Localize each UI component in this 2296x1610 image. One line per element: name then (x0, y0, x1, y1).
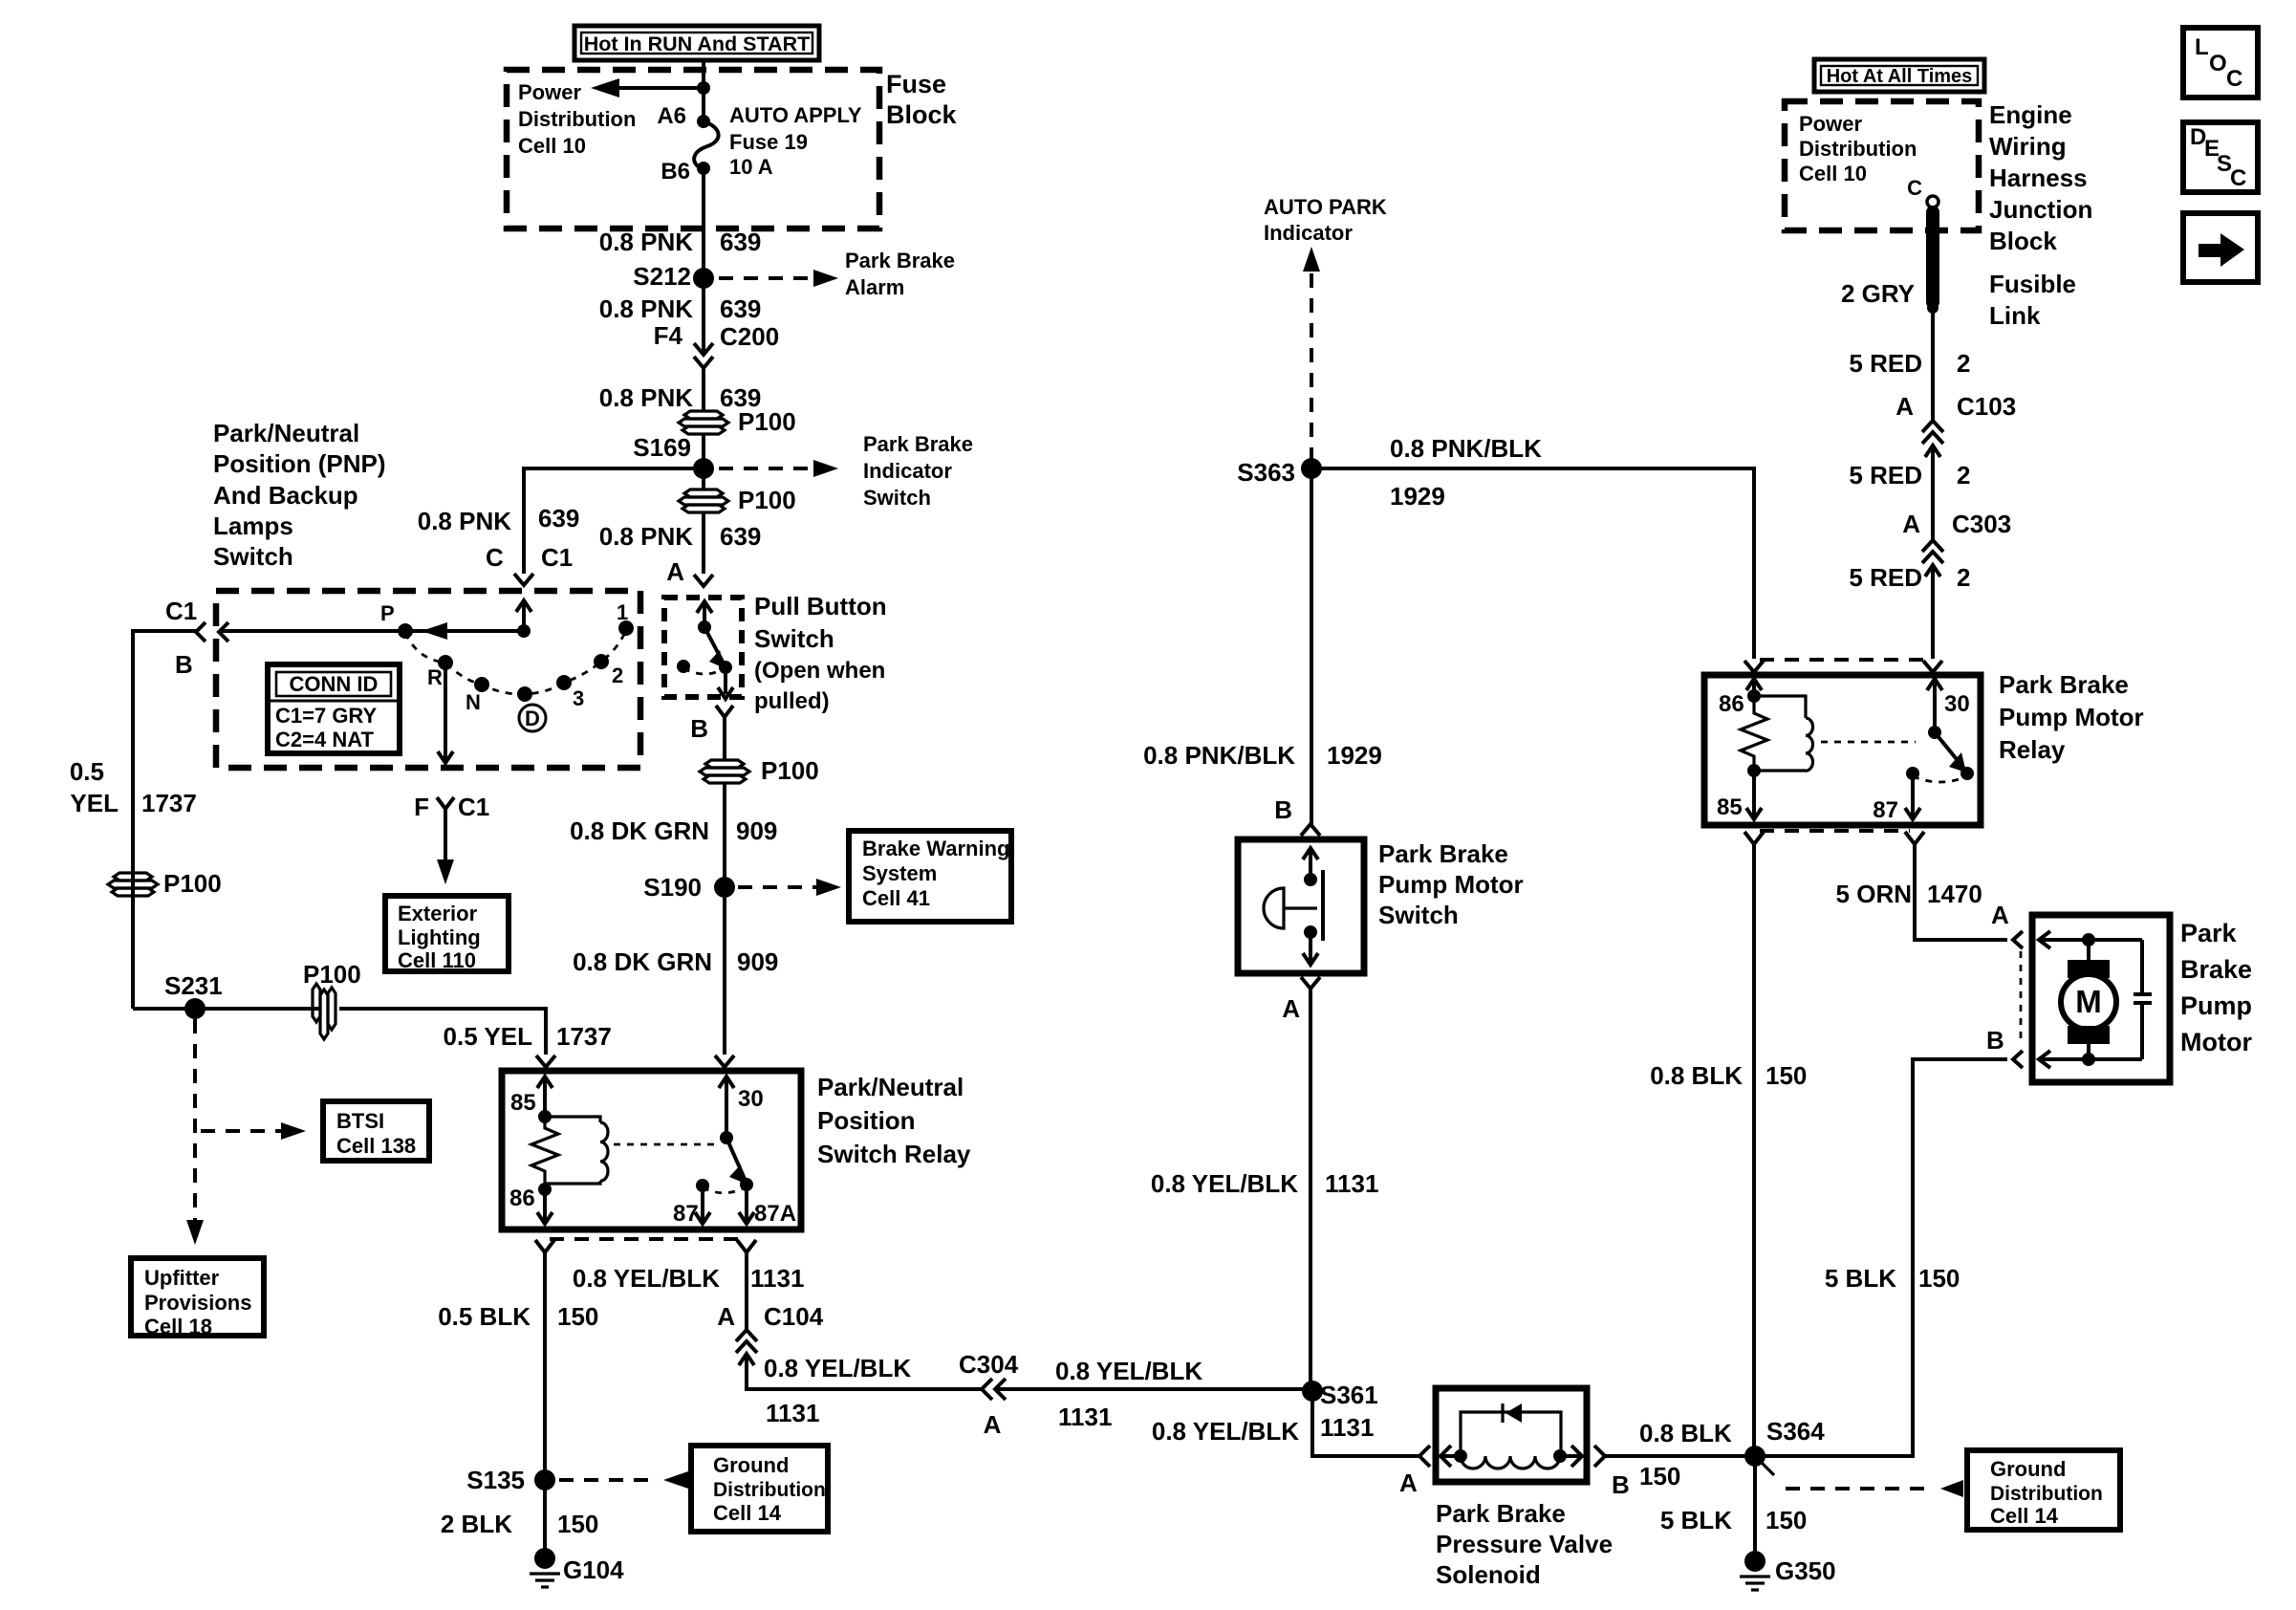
svg-text:Ground: Ground (1990, 1457, 2066, 1481)
wire: feed from Hot box into fuse block (702, 60, 705, 121)
pull button switch: top contact dot (698, 620, 711, 634)
contact R dot (438, 655, 453, 670)
wire 909 from pull button to P100 (723, 717, 726, 759)
dashed ref arrow to Brake Warning System (738, 879, 841, 896)
svg-text:1131: 1131 (1320, 1413, 1374, 1442)
pump relay pivot dot (1928, 726, 1941, 739)
svg-text:0.8 YEL/BLK: 0.8 YEL/BLK (1151, 1169, 1298, 1198)
ref box: Exterior Lighting Cell 110 (385, 896, 509, 972)
svg-text:1929: 1929 (1390, 482, 1445, 511)
relay K node 85 (538, 1110, 552, 1123)
svg-text:S135: S135 (466, 1466, 525, 1494)
pin A6 terminal dot (697, 115, 710, 128)
svg-text:P100: P100 (163, 869, 222, 898)
label 0.8 YEL/BLK 1131 (below relay) (573, 1264, 805, 1293)
svg-text:Switch Relay: Switch Relay (817, 1140, 971, 1168)
motor armature M (2061, 940, 2116, 1059)
label 0.8 PNK 639 (above pull button) (599, 522, 762, 551)
relay K: Park/Neutral Position Switch Relay box (502, 1071, 801, 1229)
relay K pin 87A exit arrow (739, 1185, 796, 1227)
wire: branch from S169 to PNP switch pin C (524, 468, 704, 574)
dashed ref arrow to Park Brake Alarm (719, 249, 955, 299)
pump relay coil (1754, 696, 1813, 771)
svg-text:P: P (380, 601, 395, 625)
label: Park/Neutral Position (PNP) And Backup Lamps Switch (213, 419, 386, 571)
wire 639 from B6 to S212 (702, 168, 705, 278)
svg-text:Solenoid: Solenoid (1436, 1560, 1541, 1589)
pin 87A chevron below relay (737, 1240, 756, 1252)
svg-text:Junction: Junction (1989, 195, 2092, 224)
svg-text:5 BLK: 5 BLK (1825, 1264, 1896, 1293)
relay K contact 87A dot (740, 1178, 753, 1191)
motor exit arrow B (2039, 1051, 2142, 1068)
dashed connector line below PNP relay (550, 1237, 742, 1241)
svg-text:5 ORN: 5 ORN (1836, 880, 1912, 908)
svg-text:O: O (2209, 51, 2227, 76)
svg-text:R: R (427, 665, 443, 689)
relay: Park Brake Pump Motor Relay box (1704, 675, 1981, 825)
svg-text:M: M (2075, 984, 2102, 1019)
fuse F19 AUTO APPLY 10 A (fuse squiggle) (694, 121, 718, 169)
dashed ref arrow to Ground Distribution (left) (559, 1471, 688, 1489)
svg-text:86: 86 (509, 1186, 535, 1211)
svg-text:Park: Park (2180, 919, 2238, 947)
pump switch: contact blade (1321, 870, 1325, 941)
svg-text:Hot In RUN And START: Hot In RUN And START (584, 33, 810, 55)
contact N dot (474, 677, 489, 692)
grommet P100 (first) (679, 407, 796, 436)
svg-text:Distribution: Distribution (518, 107, 636, 131)
motor entry arrow A (2039, 931, 2142, 948)
pump relay node 86 (1747, 689, 1761, 703)
svg-text:0.8 PNK: 0.8 PNK (599, 294, 693, 323)
svg-text:B: B (1612, 1470, 1630, 1499)
svg-text:0.5 BLK: 0.5 BLK (438, 1302, 531, 1331)
pull button switch: input arrow (697, 601, 712, 627)
svg-text:C1: C1 (165, 597, 197, 625)
svg-text:S212: S212 (633, 262, 691, 291)
svg-text:pulled): pulled) (754, 688, 830, 714)
svg-text:C: C (486, 543, 504, 572)
svg-text:Motor: Motor (2180, 1028, 2252, 1056)
svg-text:2: 2 (1957, 349, 1970, 378)
label 5 ORN 1470 (1836, 880, 1982, 908)
svg-text:1131: 1131 (1325, 1169, 1378, 1198)
pump switch: bottom contact dot (1304, 925, 1317, 939)
pump switch: top contact dot (1304, 873, 1317, 886)
pin 85 chevron at PNP relay (536, 1055, 555, 1067)
splice S212 (633, 262, 714, 291)
pin A chevron (694, 575, 713, 586)
wire 2 from C303 to pump relay pin 30 (1931, 565, 1935, 659)
svg-text:G350: G350 (1775, 1556, 1836, 1585)
svg-text:Exterior: Exterior (398, 902, 478, 925)
svg-text:C2=4 NAT: C2=4 NAT (275, 728, 374, 751)
pump relay dashed actuator link (1821, 741, 1916, 744)
PNP switch dashed box (216, 591, 640, 768)
pump relay dashed contact arc (1913, 776, 1967, 782)
svg-text:Cell 14: Cell 14 (1990, 1504, 2059, 1528)
switch: Park Brake Pump Motor Switch box (1238, 839, 1364, 973)
ref box: Ground Distribution Cell 14 (right) (1967, 1450, 2120, 1530)
svg-text:Pull Button: Pull Button (754, 592, 887, 620)
svg-text:AUTO APPLY: AUTO APPLY (729, 103, 862, 127)
svg-text:150: 150 (557, 1510, 598, 1538)
svg-text:Engine: Engine (1989, 100, 2072, 129)
pin B chevron (716, 706, 733, 717)
dashed ref line from S231 down (193, 1019, 197, 1229)
svg-text:1929: 1929 (1327, 741, 1382, 770)
label 0.8 PNK 639 (above S212) (599, 228, 762, 256)
label 0.8 YEL/BLK 1131 (middle wire) (1151, 1169, 1379, 1198)
label 0.5 YEL 1737 (left wire) (70, 757, 197, 817)
wire 1737 from P100 to PNP relay pin 85 (339, 1009, 546, 1055)
wire 1737: pin B down the left side (133, 631, 196, 1009)
svg-text:C200: C200 (720, 322, 779, 351)
connector C304 labels (959, 1350, 1019, 1439)
svg-text:F: F (414, 793, 429, 821)
label: Fuse Block (886, 70, 958, 129)
label 5 BLK 150 (ground wire) (1660, 1506, 1808, 1534)
svg-text:Fuse: Fuse (886, 70, 946, 98)
pull button switch: moving contact dot (719, 661, 732, 674)
svg-text:Cell 10: Cell 10 (518, 134, 586, 158)
svg-text:Link: Link (1989, 301, 2041, 330)
svg-text:150: 150 (1918, 1264, 1960, 1293)
svg-text:2 GRY: 2 GRY (1841, 279, 1915, 308)
wire 2 from C103 to C303 (1931, 446, 1935, 540)
svg-text:0.8 DK GRN: 0.8 DK GRN (570, 816, 709, 845)
ref box: Ground Distribution Cell 14 (left) (691, 1446, 828, 1532)
svg-text:L: L (2195, 34, 2209, 60)
label: Park Brake Pump Motor (2180, 919, 2252, 1056)
svg-text:2 BLK: 2 BLK (441, 1510, 512, 1538)
svg-text:85: 85 (1717, 794, 1743, 820)
splice S361 (1302, 1381, 1378, 1442)
svg-text:Pump: Pump (2180, 991, 2252, 1020)
label 5 RED 2 (below C303) (1849, 563, 1970, 592)
relay K resistor (531, 1117, 558, 1184)
label 0.8 DK GRN 909 (above S190) (570, 816, 777, 845)
svg-text:0.5 YEL: 0.5 YEL (444, 1022, 533, 1051)
svg-text:C304: C304 (959, 1350, 1019, 1379)
svg-text:S231: S231 (164, 971, 223, 1000)
svg-text:S363: S363 (1237, 458, 1295, 487)
pin 87 chevron below pump relay (1905, 832, 1924, 844)
svg-text:Block: Block (886, 100, 958, 129)
node: fusible link lower end (1927, 302, 1939, 314)
connector C1 pin C labels (486, 543, 573, 572)
legend box DESC (2183, 122, 2258, 192)
svg-text:909: 909 (737, 947, 778, 976)
pin 85 chevron below pump relay (1744, 832, 1764, 844)
wire 150 from motor B to S364 (1755, 1059, 2007, 1456)
pump relay pin 85 exit arrow (1717, 771, 1762, 820)
svg-text:639: 639 (720, 522, 761, 551)
splice S135 (466, 1466, 555, 1494)
pump relay pin 30 entry arrow (1927, 679, 1970, 732)
ground G104 (530, 1548, 624, 1587)
solenoid: exit node and edge arrow (1553, 1446, 1582, 1467)
svg-text:1131: 1131 (766, 1399, 819, 1427)
svg-text:Cell 14: Cell 14 (713, 1501, 782, 1525)
contact D dot (517, 686, 532, 702)
svg-text:2: 2 (612, 664, 623, 687)
svg-text:Wiring: Wiring (1989, 132, 2067, 161)
ref box: Upfitter Provisions Cell 18 (131, 1258, 264, 1338)
svg-text:C1: C1 (458, 793, 489, 821)
relay K coil (545, 1117, 608, 1184)
svg-text:Fusible: Fusible (1989, 270, 2076, 298)
dashed ref arrow to Ground Distribution (right) (1762, 1463, 1963, 1497)
connector C1 pin C chevron (514, 574, 533, 585)
svg-text:Switch: Switch (1378, 901, 1459, 929)
wire 150 from S135 to G104 (543, 1480, 547, 1553)
svg-text:And Backup: And Backup (213, 481, 358, 510)
svg-text:P100: P100 (738, 407, 796, 436)
svg-text:909: 909 (736, 816, 777, 845)
connector C200 symbol (694, 343, 713, 368)
svg-text:Park Brake: Park Brake (1436, 1499, 1566, 1528)
svg-text:Power: Power (518, 80, 581, 104)
label 0.8 YEL/BLK 1131 (left of C304) (764, 1354, 911, 1427)
pin 86 chevron above pump relay (1744, 661, 1764, 672)
dashed ref arrow to Upfitter Provisions (186, 1220, 204, 1245)
pin B6 terminal dot (697, 162, 710, 175)
dashed connector line below pump relay (1760, 829, 1910, 833)
label: AUTO PARK Indicator (1264, 195, 1387, 245)
label 5 RED 2 (above C103) (1849, 349, 1970, 378)
wire 909 from S190 to PNP relay pin 30 (723, 887, 726, 1055)
pin 30 chevron above pump relay (1923, 661, 1942, 672)
svg-text:Upfitter: Upfitter (144, 1266, 220, 1290)
svg-text:C: C (1907, 176, 1922, 200)
connector C103 labels (1895, 392, 2016, 421)
svg-text:639: 639 (720, 294, 761, 323)
svg-text:C1: C1 (541, 543, 573, 572)
power distribution dashed box (right) (1785, 101, 1979, 230)
svg-text:N: N (466, 690, 481, 714)
svg-text:S361: S361 (1320, 1381, 1378, 1409)
svg-text:Hot At All Times: Hot At All Times (1827, 66, 1973, 87)
label 0.8 PNK 639 (branch wire) (418, 504, 580, 535)
svg-text:0.8 PNK/BLK: 0.8 PNK/BLK (1143, 741, 1295, 770)
svg-text:CONN ID: CONN ID (290, 672, 379, 696)
solenoid: entry edge arrow and node (1440, 1446, 1467, 1467)
svg-text:Switch: Switch (213, 542, 293, 571)
connector chevron at solenoid pin A (1419, 1446, 1430, 1467)
dashed connector line above pump relay (1760, 658, 1928, 662)
svg-text:Pump Motor: Pump Motor (1999, 703, 2144, 731)
label 0.8 PNK/BLK 1929 (horizontal wire) (1390, 434, 1542, 511)
svg-text:C104: C104 (764, 1302, 824, 1331)
connector C303 labels (1902, 510, 2011, 538)
svg-text:10 A: 10 A (729, 155, 773, 179)
svg-text:Cell 138: Cell 138 (336, 1134, 416, 1158)
wire: pin F to Exterior Lighting with arrow (437, 809, 454, 884)
ref box: Brake Warning System Cell 41 (849, 831, 1011, 922)
pull button switch: dashed travel arc (683, 668, 726, 674)
svg-text:Switch: Switch (863, 486, 931, 510)
header box: Hot In RUN And START (574, 26, 819, 60)
svg-text:B: B (175, 650, 193, 679)
label: Park/Neutral Position Switch Relay (817, 1073, 971, 1168)
svg-text:Position (PNP): Position (PNP) (213, 449, 386, 478)
svg-text:1737: 1737 (141, 789, 197, 817)
svg-text:Park Brake: Park Brake (1999, 670, 2129, 699)
arrow on P contact line (422, 622, 447, 640)
motor node B (2082, 1053, 2095, 1066)
svg-text:0.8 YEL/BLK: 0.8 YEL/BLK (573, 1264, 720, 1293)
pull button switch: fixed contact dot (677, 660, 690, 673)
svg-text:F4: F4 (654, 321, 683, 350)
svg-text:Power: Power (1799, 112, 1862, 136)
wire 150 from relay 86 to S135 (543, 1252, 547, 1480)
connector C303 symbol (1922, 540, 1943, 577)
svg-text:YEL: YEL (70, 789, 119, 817)
svg-text:Cell 110: Cell 110 (398, 948, 476, 972)
svg-text:G104: G104 (563, 1556, 624, 1584)
motor: Park Brake Pump Motor box (2032, 915, 2170, 1082)
label: Power Distribution Cell 10 (right) (1799, 112, 1917, 185)
svg-text:639: 639 (538, 504, 579, 533)
svg-text:Block: Block (1989, 227, 2057, 255)
relay K pin 30 entry arrow (719, 1077, 764, 1138)
wire 150 from S364 to G350 (1753, 1456, 1757, 1556)
grommet P100 (third) (700, 756, 819, 785)
pump switch: top terminal arrow (1303, 848, 1318, 880)
svg-text:Harness: Harness (1989, 163, 2088, 192)
contact P dot (398, 623, 413, 639)
svg-text:0.8 PNK/BLK: 0.8 PNK/BLK (1390, 434, 1542, 463)
svg-text:A: A (666, 557, 684, 586)
svg-text:Brake Warning: Brake Warning (862, 837, 1009, 860)
svg-text:Cell 18: Cell 18 (144, 1315, 212, 1338)
connector chevron at solenoid pin B (1594, 1446, 1605, 1467)
splice S169 (633, 433, 714, 479)
label 0.8 PNK 639 (above P100) (599, 383, 762, 412)
svg-text:P100: P100 (303, 960, 361, 989)
svg-text:C1=7 GRY: C1=7 GRY (275, 704, 378, 728)
pump relay node 85 (1747, 764, 1761, 777)
svg-text:0.8 YEL/BLK: 0.8 YEL/BLK (764, 1354, 911, 1382)
svg-text:Indicator: Indicator (863, 459, 952, 483)
wire 639 from C200 to P100 (702, 368, 705, 411)
relay K pin 86 exit arrow (509, 1186, 552, 1224)
svg-text:Provisions: Provisions (144, 1291, 251, 1315)
svg-text:AUTO PARK: AUTO PARK (1264, 195, 1387, 219)
fusible link element (1926, 212, 1939, 302)
label 0.8 PNK 639 (above C200) (599, 294, 762, 323)
svg-text:1131: 1131 (1058, 1403, 1112, 1431)
svg-text:2: 2 (1957, 563, 1970, 592)
wire 639 from P100 to S169 (702, 434, 705, 490)
svg-text:5 BLK: 5 BLK (1660, 1506, 1732, 1534)
svg-text:P100: P100 (761, 756, 819, 785)
svg-text:Park Brake: Park Brake (845, 249, 955, 272)
pump relay pin 87 exit arrow (1873, 773, 1920, 823)
grommet P100 (horizontal wire) (303, 960, 361, 1039)
label: Park Brake Pump Motor Relay (1999, 670, 2144, 764)
svg-text:Pump Motor: Pump Motor (1378, 870, 1524, 899)
label: AUTO APPLY Fuse 19 10 A (729, 103, 862, 179)
svg-text:Cell 41: Cell 41 (862, 886, 930, 910)
relay K contact 87 dot (696, 1179, 709, 1192)
svg-text:System: System (862, 861, 937, 885)
svg-text:0.8 YEL/BLK: 0.8 YEL/BLK (1055, 1357, 1202, 1385)
dashed selector arc (405, 630, 626, 694)
wire 639 from P100 to pull button switch (702, 512, 705, 574)
pin C connector ring (1927, 196, 1939, 207)
label 2 BLK 150 (441, 1510, 599, 1538)
connector C103 symbol (1922, 421, 1943, 457)
PNP feed entry arrow (516, 600, 531, 631)
svg-text:A: A (1895, 392, 1914, 421)
wire: P contact line to connector C1 pin B (219, 629, 524, 633)
ground G350 (1740, 1551, 1836, 1590)
pump relay pin 86 entry arrow (1719, 679, 1762, 717)
svg-text:B: B (1986, 1026, 2004, 1055)
wire 2 from fusible link to C103 (1931, 308, 1935, 421)
svg-text:(Open when: (Open when (754, 658, 885, 684)
svg-text:0.8 PNK: 0.8 PNK (599, 383, 693, 412)
svg-text:A6: A6 (657, 103, 686, 129)
svg-text:3: 3 (573, 686, 584, 710)
svg-text:150: 150 (1765, 1506, 1807, 1534)
pin A chevron (pump motor) (2013, 931, 2023, 948)
label 0.5 BLK 150 (438, 1302, 598, 1331)
svg-text:Switch: Switch (754, 624, 834, 653)
splice S231 (164, 971, 223, 1019)
connector C1 pin B chevron (196, 622, 206, 642)
svg-text:A: A (717, 1302, 735, 1331)
svg-text:1131: 1131 (750, 1264, 804, 1293)
connector C104 labels (717, 1302, 823, 1331)
connector C104 symbol (736, 1330, 757, 1365)
node: fuse block feed junction (697, 81, 710, 95)
dashed ref arrow to BTSI (201, 1122, 306, 1140)
svg-text:B: B (1274, 795, 1292, 824)
svg-text:0.8 DK GRN: 0.8 DK GRN (573, 947, 712, 976)
connector C304 symbol (982, 1379, 1006, 1400)
relay K pin 87 exit arrow (673, 1186, 710, 1227)
wire 639 from S212 to C200 (702, 278, 705, 356)
svg-text:Distribution: Distribution (713, 1479, 826, 1501)
svg-text:S364: S364 (1766, 1417, 1825, 1446)
wire 1929 from S363 to pump switch (1310, 468, 1313, 824)
dashed connector boundary at motor (2020, 951, 2023, 1044)
fuse block dashed box (507, 70, 879, 228)
svg-text:C: C (2226, 66, 2242, 92)
svg-text:S169: S169 (633, 433, 691, 462)
svg-text:0.8 PNK: 0.8 PNK (599, 522, 693, 551)
svg-text:Ground: Ground (713, 1453, 789, 1477)
label: Park Brake Pump Motor Switch (1378, 839, 1524, 929)
svg-text:0.8 BLK: 0.8 BLK (1650, 1061, 1743, 1090)
pump relay resistor (1741, 696, 1767, 771)
splice S363 (1237, 458, 1322, 487)
svg-text:0.8 YEL/BLK: 0.8 YEL/BLK (1152, 1417, 1299, 1446)
pull button switch: blade with arrow (704, 627, 725, 668)
relay K pivot dot (720, 1131, 733, 1144)
svg-text:Cell 10: Cell 10 (1799, 162, 1867, 185)
svg-text:2: 2 (1957, 461, 1970, 490)
label 0.8 DK GRN 909 (below S190) (573, 947, 778, 976)
splice S364 (1744, 1417, 1825, 1467)
pump relay contact 87 dot (1906, 767, 1919, 780)
relay K dashed contact arc (703, 1186, 747, 1193)
svg-text:150: 150 (557, 1302, 598, 1331)
